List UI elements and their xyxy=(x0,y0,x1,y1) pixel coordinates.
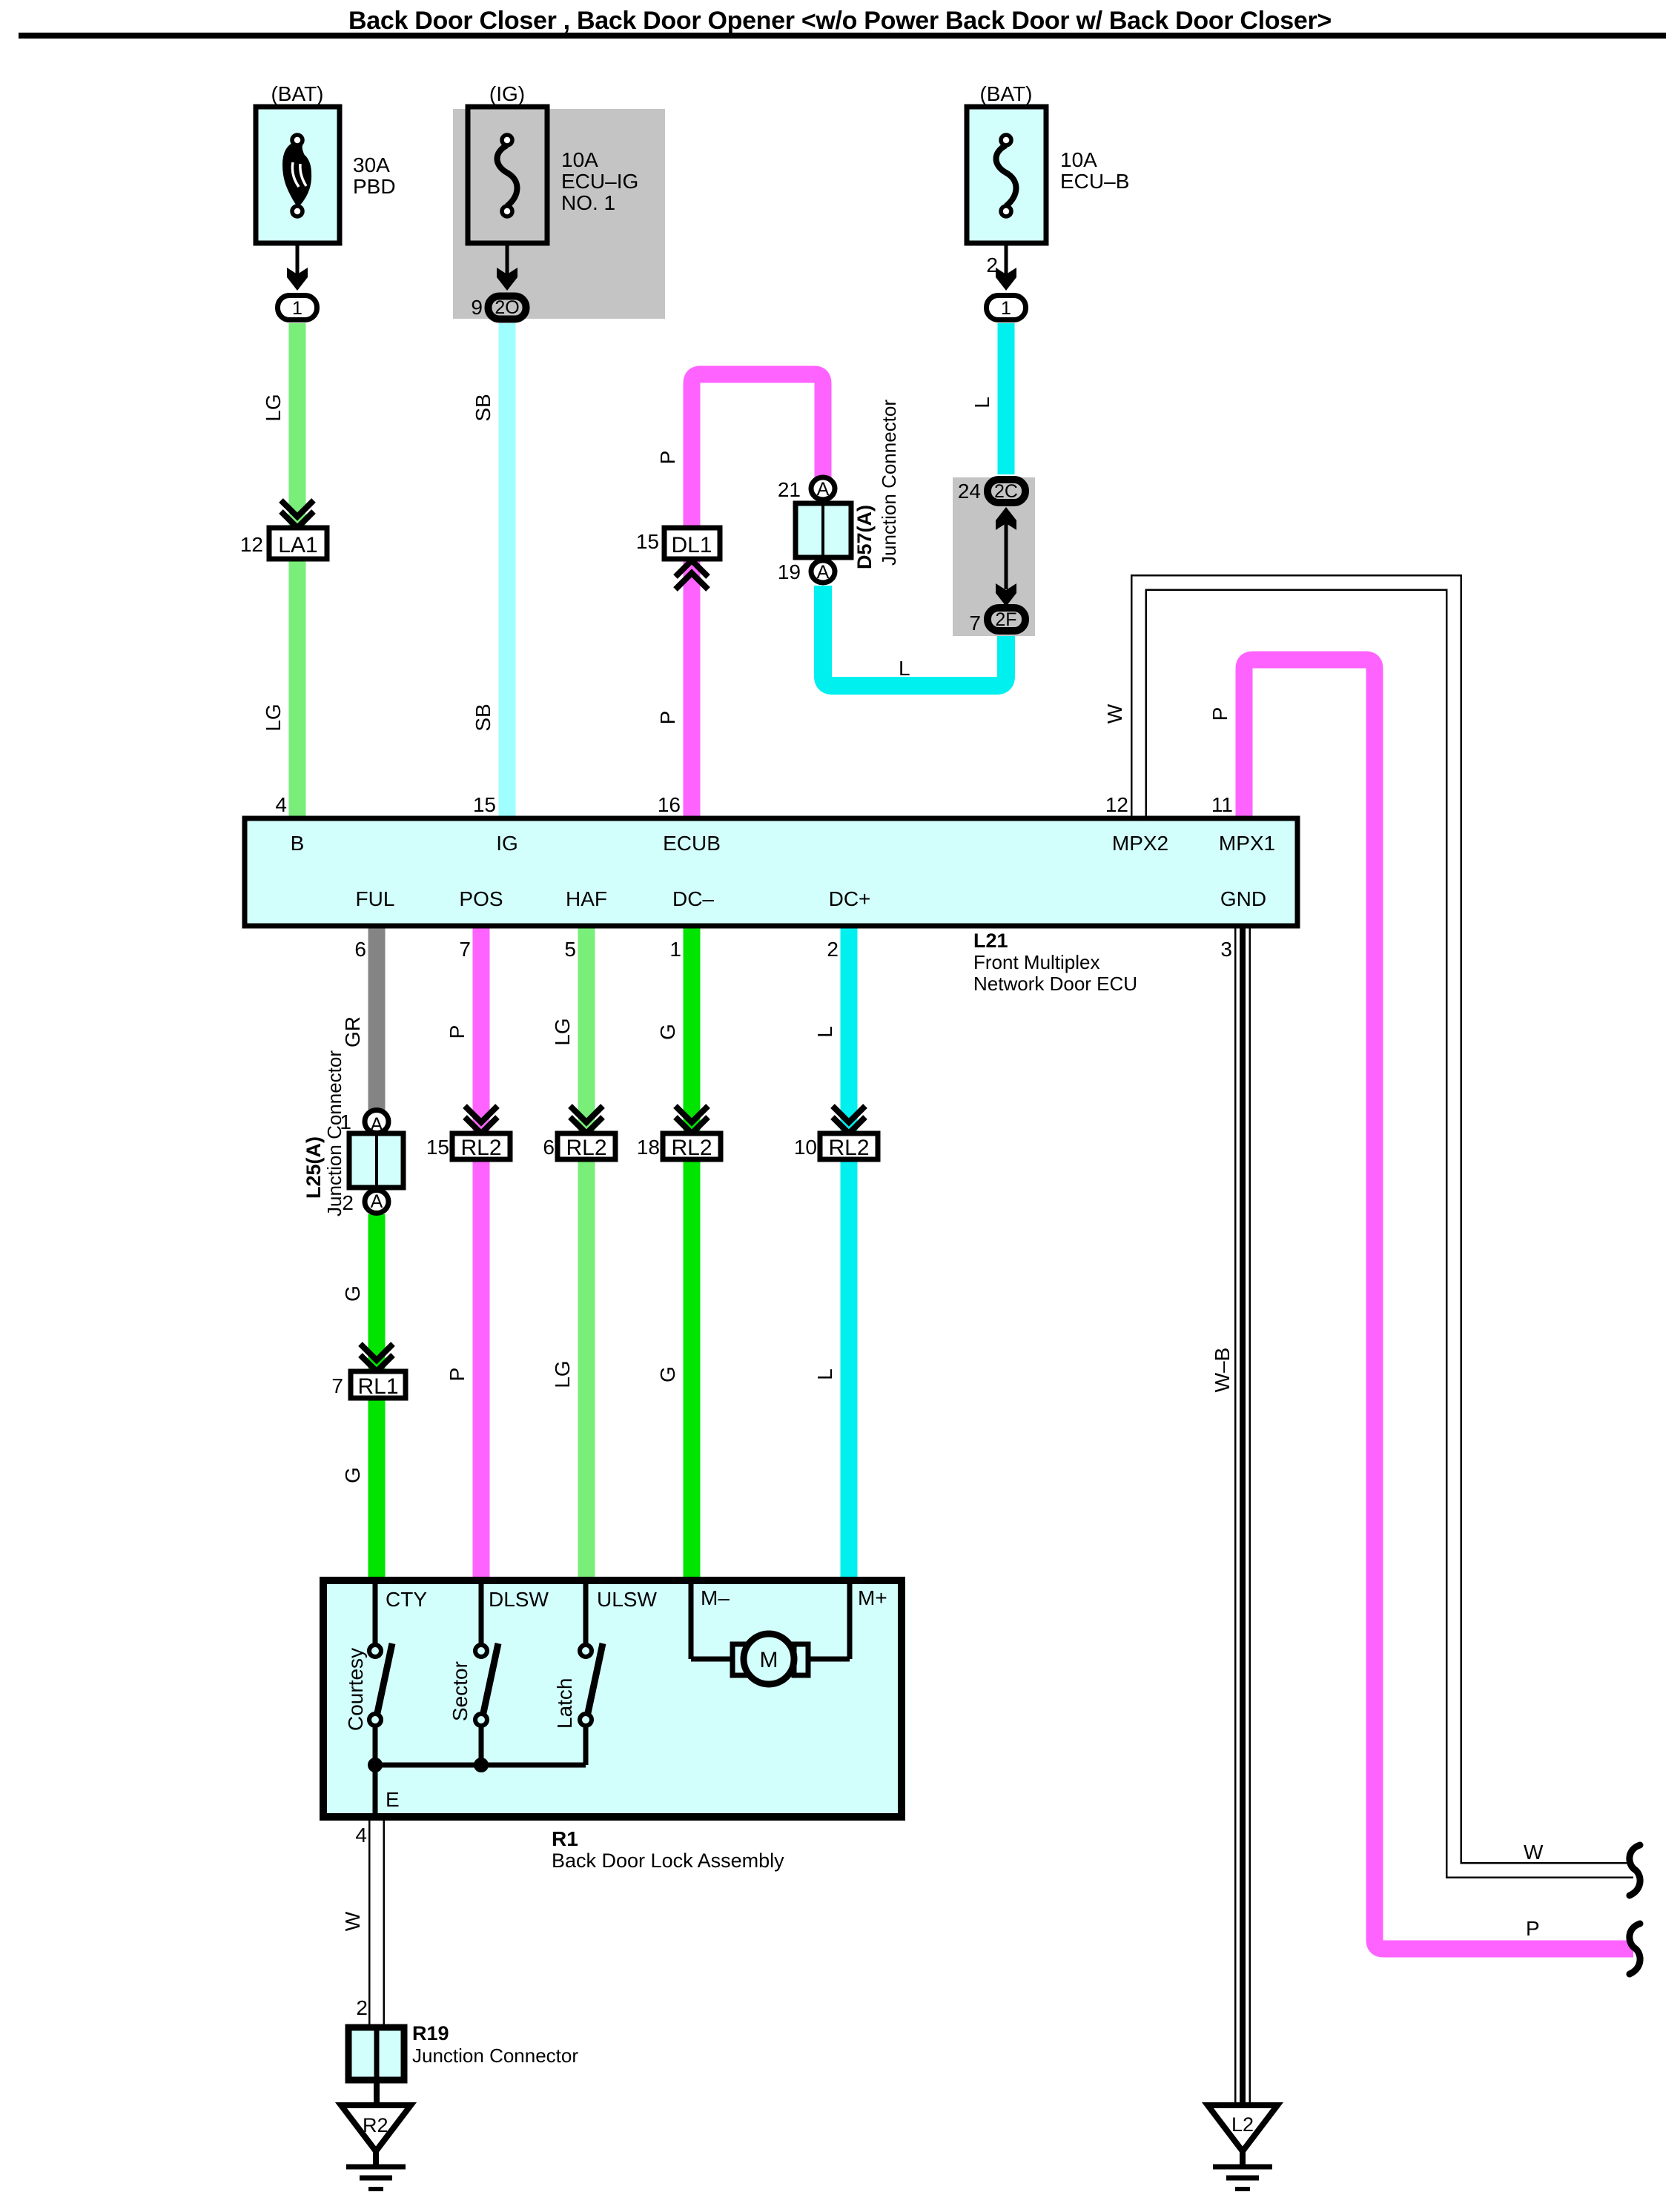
svg-text:R19: R19 xyxy=(412,2022,449,2044)
svg-text:15: 15 xyxy=(473,793,496,816)
svg-text:DL1: DL1 xyxy=(671,533,712,557)
svg-text:D57(A): D57(A) xyxy=(853,505,876,569)
svg-text:CTY: CTY xyxy=(386,1588,427,1611)
svg-text:PBD: PBD xyxy=(353,175,396,198)
svg-text:RL2: RL2 xyxy=(828,1136,869,1160)
svg-text:10: 10 xyxy=(794,1136,817,1159)
svg-text:7: 7 xyxy=(969,612,981,635)
svg-text:30A: 30A xyxy=(353,153,390,176)
svg-text:RL2: RL2 xyxy=(566,1136,606,1160)
svg-text:LG: LG xyxy=(551,1360,574,1388)
svg-text:P: P xyxy=(656,711,679,725)
svg-text:2: 2 xyxy=(827,938,839,961)
svg-text:P: P xyxy=(656,451,679,465)
svg-text:G: G xyxy=(341,1467,364,1483)
svg-text:A: A xyxy=(817,562,830,583)
svg-text:P: P xyxy=(446,1025,469,1039)
svg-text:NO. 1: NO. 1 xyxy=(561,191,615,214)
svg-text:L25(A): L25(A) xyxy=(302,1136,325,1199)
svg-text:L21: L21 xyxy=(973,930,1008,952)
svg-text:11: 11 xyxy=(1211,793,1233,816)
svg-text:L2: L2 xyxy=(1231,2113,1254,2136)
svg-text:W: W xyxy=(1524,1841,1544,1864)
svg-text:Junction Connector: Junction Connector xyxy=(878,400,900,566)
svg-text:LA1: LA1 xyxy=(278,533,317,557)
svg-text:1: 1 xyxy=(669,938,681,961)
svg-text:Courtesy: Courtesy xyxy=(344,1648,367,1731)
svg-text:Latch: Latch xyxy=(553,1678,576,1729)
svg-text:RL2: RL2 xyxy=(671,1136,712,1160)
svg-text:GND: GND xyxy=(1220,887,1266,910)
svg-text:SB: SB xyxy=(472,394,495,421)
svg-text:24: 24 xyxy=(958,480,981,503)
svg-text:Back Door Lock Assembly: Back Door Lock Assembly xyxy=(552,1850,784,1872)
svg-text:R2: R2 xyxy=(363,2114,388,2136)
svg-text:2: 2 xyxy=(356,1996,368,2019)
svg-text:10A: 10A xyxy=(561,148,598,171)
svg-text:DLSW: DLSW xyxy=(489,1588,549,1611)
svg-text:E: E xyxy=(386,1788,400,1811)
svg-text:GR: GR xyxy=(341,1016,364,1047)
svg-text:16: 16 xyxy=(658,793,681,816)
svg-text:M: M xyxy=(760,1648,778,1672)
svg-text:W: W xyxy=(341,1911,364,1931)
svg-text:P: P xyxy=(1526,1917,1540,1940)
svg-text:(IG): (IG) xyxy=(489,82,525,105)
svg-text:7: 7 xyxy=(459,938,471,961)
svg-text:1: 1 xyxy=(1001,298,1011,319)
svg-text:M–: M– xyxy=(701,1586,730,1609)
svg-text:Junction Connector: Junction Connector xyxy=(323,1050,345,1216)
svg-text:MPX2: MPX2 xyxy=(1112,832,1168,855)
svg-text:15: 15 xyxy=(426,1136,449,1159)
svg-text:G: G xyxy=(341,1285,364,1302)
svg-text:G: G xyxy=(656,1366,679,1382)
svg-text:21: 21 xyxy=(778,478,801,501)
svg-text:FUL: FUL xyxy=(356,887,395,910)
svg-text:19: 19 xyxy=(778,560,801,583)
svg-text:ULSW: ULSW xyxy=(597,1588,657,1611)
svg-text:P: P xyxy=(446,1368,469,1382)
svg-text:POS: POS xyxy=(459,887,503,910)
svg-text:P: P xyxy=(1208,707,1231,721)
svg-text:Front Multiplex: Front Multiplex xyxy=(973,951,1100,973)
svg-text:5: 5 xyxy=(564,938,576,961)
svg-text:4: 4 xyxy=(355,1824,367,1847)
svg-text:(BAT): (BAT) xyxy=(271,82,323,105)
svg-text:Sector: Sector xyxy=(449,1661,472,1721)
svg-text:RL2: RL2 xyxy=(460,1136,501,1160)
svg-text:2C: 2C xyxy=(994,481,1018,502)
svg-text:ECUB: ECUB xyxy=(663,832,721,855)
svg-text:M+: M+ xyxy=(858,1586,887,1609)
svg-text:L: L xyxy=(899,657,910,680)
svg-text:2F: 2F xyxy=(995,609,1016,630)
svg-text:Junction Connector: Junction Connector xyxy=(412,2044,578,2067)
svg-text:12: 12 xyxy=(240,533,263,556)
svg-text:HAF: HAF xyxy=(566,887,607,910)
svg-text:ECU–IG: ECU–IG xyxy=(561,170,638,193)
svg-text:Back Door Closer , Back Door O: Back Door Closer , Back Door Opener <w/o… xyxy=(348,7,1332,35)
svg-text:9: 9 xyxy=(471,296,483,319)
svg-text:ECU–B: ECU–B xyxy=(1060,170,1129,193)
svg-text:MPX1: MPX1 xyxy=(1219,832,1275,855)
svg-text:DC–: DC– xyxy=(672,887,714,910)
svg-text:L: L xyxy=(970,397,993,408)
svg-text:DC+: DC+ xyxy=(829,887,871,910)
svg-text:12: 12 xyxy=(1105,793,1128,816)
svg-text:A: A xyxy=(817,479,830,500)
svg-text:6: 6 xyxy=(354,938,366,961)
svg-text:LG: LG xyxy=(262,703,285,731)
svg-text:1: 1 xyxy=(292,298,302,319)
svg-text:A: A xyxy=(371,1191,383,1212)
svg-text:15: 15 xyxy=(636,530,659,553)
svg-text:L: L xyxy=(813,1026,836,1038)
svg-text:4: 4 xyxy=(275,793,287,816)
svg-text:7: 7 xyxy=(331,1374,343,1397)
svg-text:IG: IG xyxy=(496,832,518,855)
svg-text:G: G xyxy=(656,1024,679,1040)
svg-text:B: B xyxy=(291,832,305,855)
svg-text:3: 3 xyxy=(1220,938,1232,961)
svg-text:R1: R1 xyxy=(552,1827,578,1850)
svg-text:2O: 2O xyxy=(495,297,519,318)
svg-text:RL1: RL1 xyxy=(357,1374,398,1399)
svg-text:L: L xyxy=(813,1368,836,1380)
svg-text:10A: 10A xyxy=(1060,148,1097,171)
svg-text:SB: SB xyxy=(472,703,495,731)
svg-text:W–B: W–B xyxy=(1211,1348,1234,1393)
svg-text:(BAT): (BAT) xyxy=(979,82,1032,105)
svg-text:W: W xyxy=(1103,703,1126,723)
svg-text:18: 18 xyxy=(637,1136,660,1159)
svg-text:6: 6 xyxy=(543,1136,555,1159)
svg-text:Network Door ECU: Network Door ECU xyxy=(973,973,1137,995)
svg-text:LG: LG xyxy=(262,394,285,421)
svg-text:LG: LG xyxy=(551,1018,574,1045)
